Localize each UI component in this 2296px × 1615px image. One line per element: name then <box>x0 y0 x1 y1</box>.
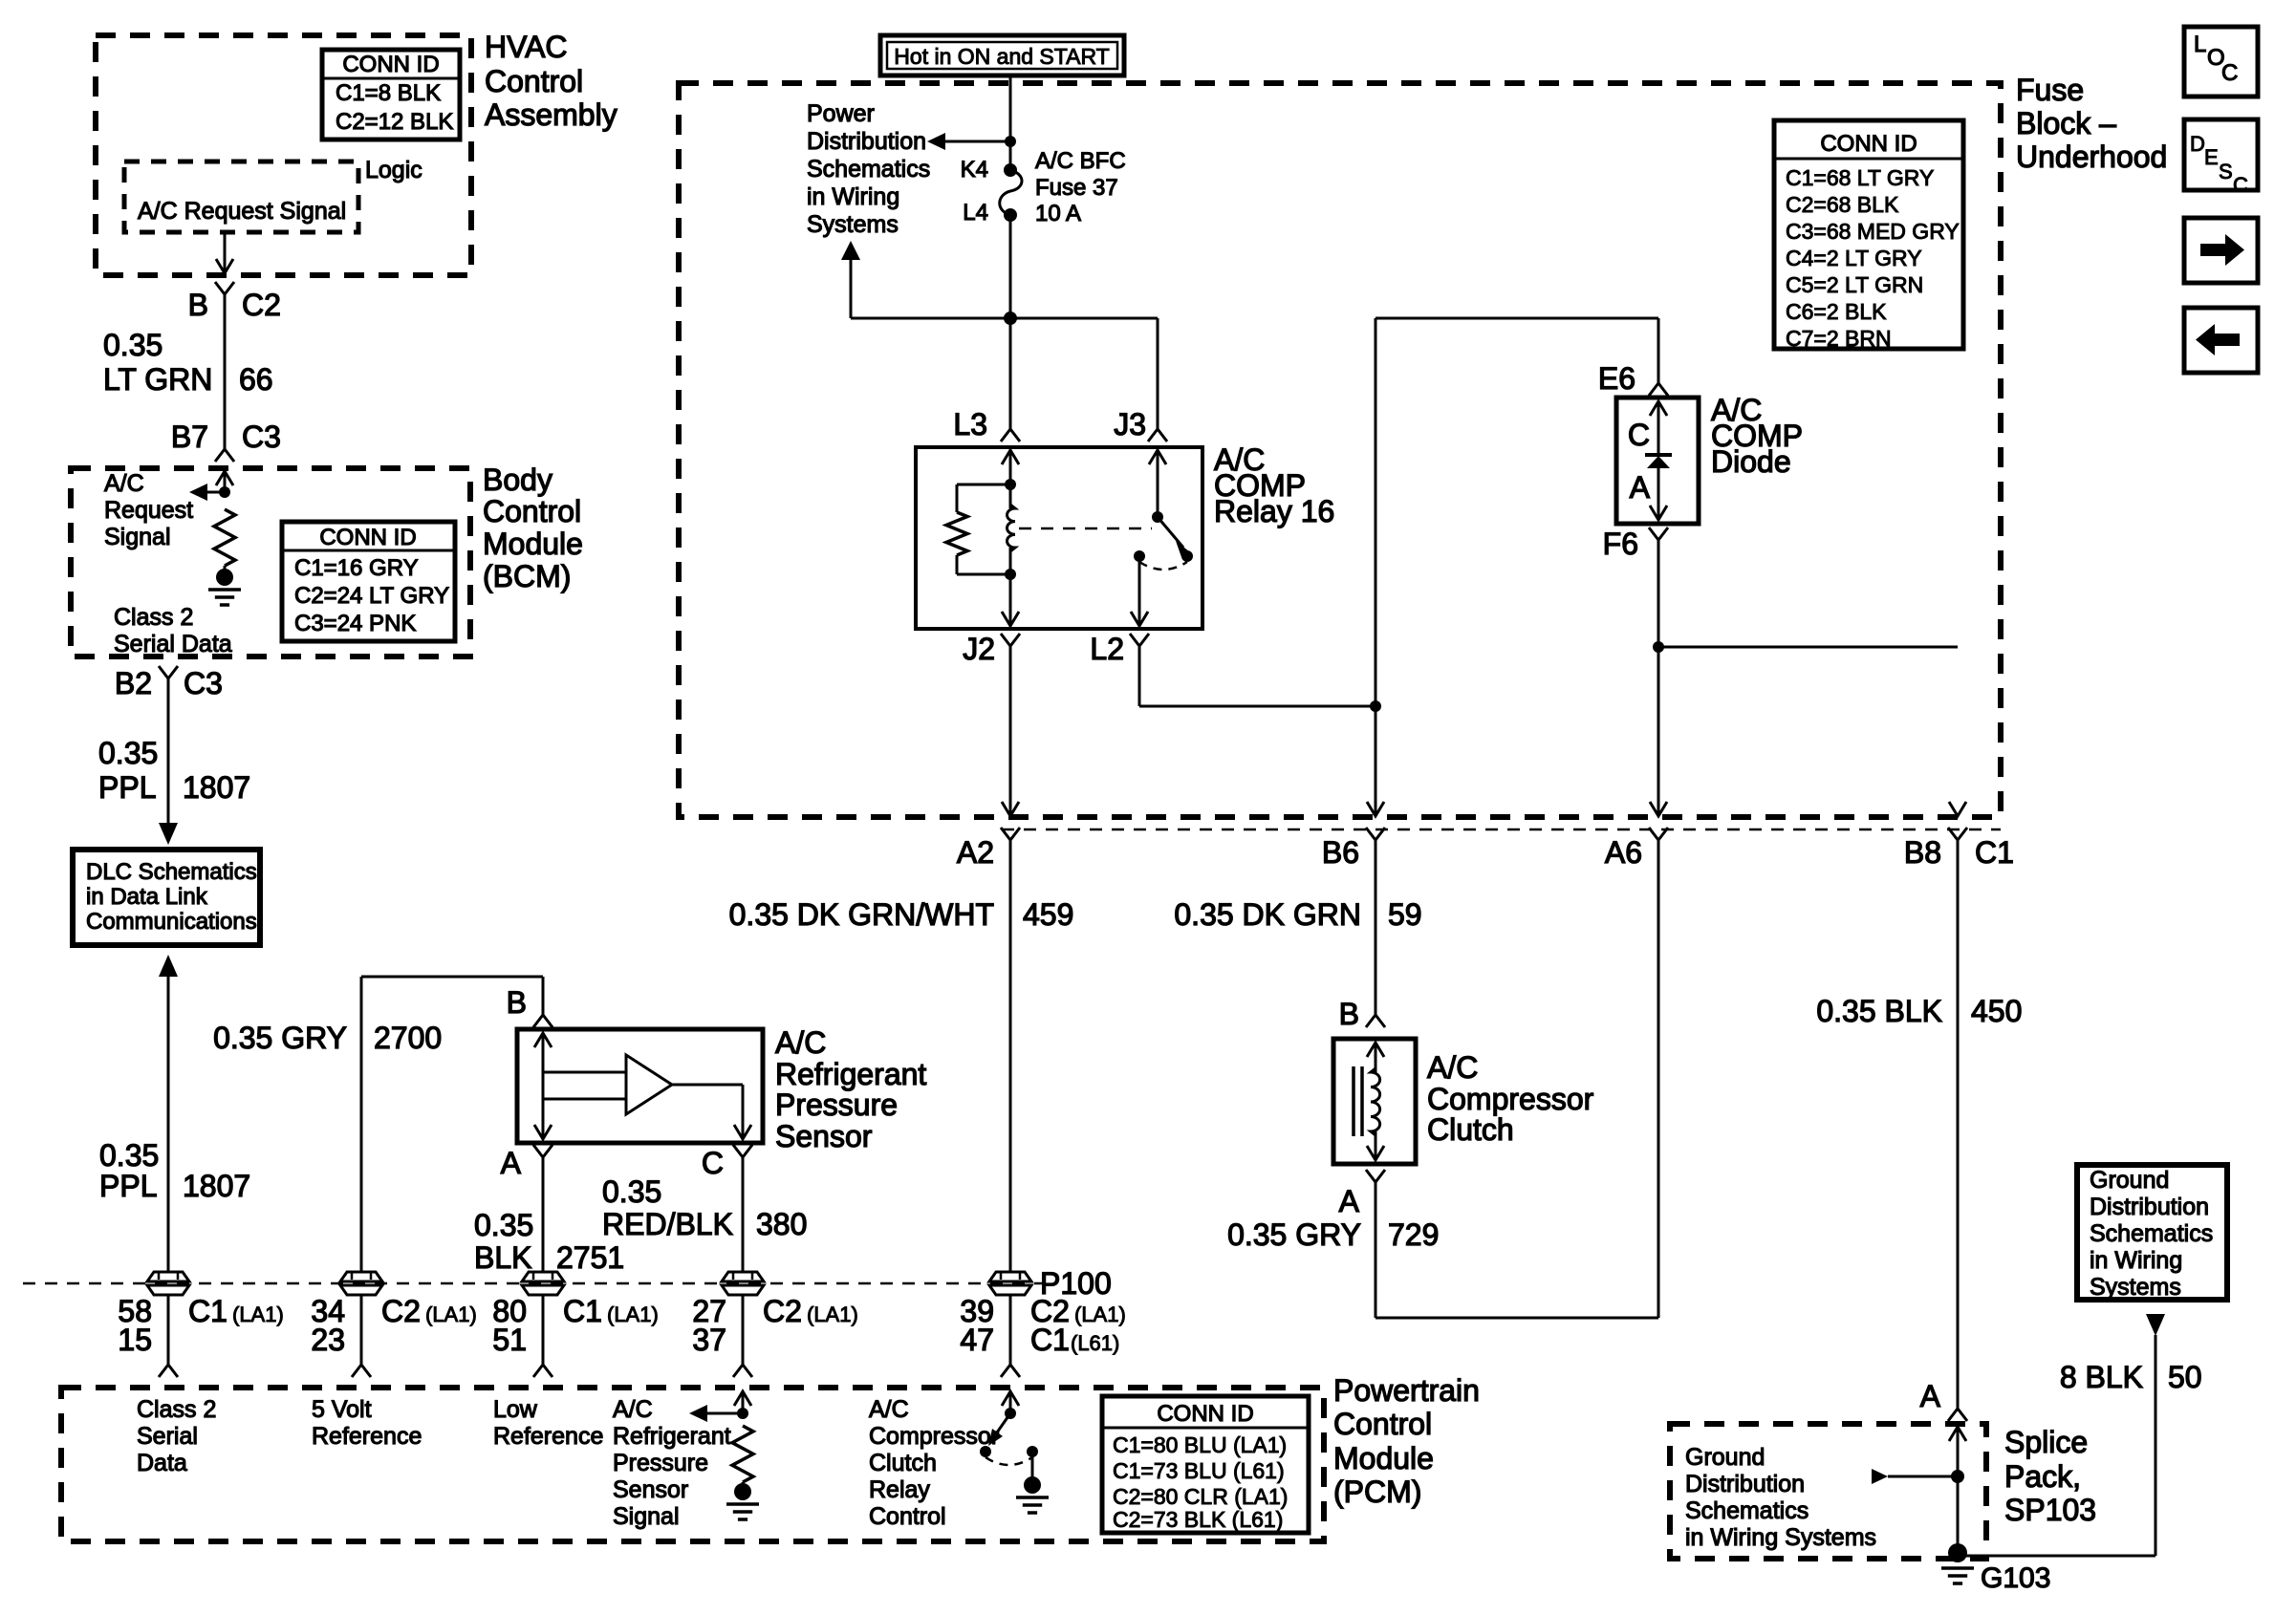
svg-text:A/C: A/C <box>1427 1050 1478 1085</box>
svg-text:Underhood: Underhood <box>2016 140 2167 174</box>
svg-text:in Wiring: in Wiring <box>2090 1247 2182 1274</box>
svg-text:BLK: BLK <box>474 1240 531 1275</box>
svg-text:Distribution: Distribution <box>1685 1471 1805 1497</box>
svg-text:A/C: A/C <box>613 1396 653 1423</box>
svg-text:C2: C2 <box>242 288 281 322</box>
svg-text:2700: 2700 <box>374 1021 442 1055</box>
svg-text:C2=68 BLK: C2=68 BLK <box>1786 192 1899 217</box>
svg-text:B: B <box>507 985 527 1020</box>
svg-text:59: 59 <box>1388 897 1422 932</box>
svg-text:C2=73 BLK (L61): C2=73 BLK (L61) <box>1113 1507 1283 1532</box>
svg-text:CONN ID: CONN ID <box>342 52 439 77</box>
svg-text:L4: L4 <box>963 200 988 226</box>
svg-text:Diode: Diode <box>1711 444 1791 479</box>
svg-text:LT GRN: LT GRN <box>103 362 212 397</box>
svg-text:A: A <box>501 1146 522 1180</box>
svg-text:A/C Request Signal: A/C Request Signal <box>138 198 346 225</box>
svg-text:L: L <box>2194 32 2206 57</box>
svg-text:Data: Data <box>137 1450 187 1476</box>
svg-text:in Wiring Systems: in Wiring Systems <box>1685 1524 1876 1551</box>
svg-text:A/C: A/C <box>869 1396 909 1423</box>
svg-text:0.35: 0.35 <box>99 1138 159 1173</box>
svg-text:0.35: 0.35 <box>103 328 162 362</box>
svg-text:CONN ID: CONN ID <box>319 525 416 550</box>
svg-text:1807: 1807 <box>183 1169 250 1203</box>
svg-text:C1: C1 <box>188 1294 227 1328</box>
svg-text:C1: C1 <box>1975 835 2014 870</box>
svg-text:L2: L2 <box>1090 632 1124 666</box>
svg-text:J3: J3 <box>1114 407 1146 441</box>
svg-text:B6: B6 <box>1322 835 1359 870</box>
svg-text:0.35 GRY: 0.35 GRY <box>213 1021 347 1055</box>
svg-text:RED/BLK: RED/BLK <box>602 1207 733 1241</box>
svg-text:Reference: Reference <box>312 1423 422 1450</box>
svg-text:Assembly: Assembly <box>485 97 617 132</box>
svg-text:0.35 DK GRN/WHT: 0.35 DK GRN/WHT <box>729 897 994 932</box>
svg-text:Fuse 37: Fuse 37 <box>1035 175 1118 201</box>
svg-text:B: B <box>1339 997 1359 1031</box>
svg-text:47: 47 <box>960 1323 994 1357</box>
svg-text:Sensor: Sensor <box>613 1476 688 1503</box>
svg-text:5 Volt: 5 Volt <box>312 1396 372 1423</box>
svg-text:Ground: Ground <box>2090 1167 2169 1194</box>
svg-text:Serial: Serial <box>137 1423 198 1450</box>
svg-text:Powertrain: Powertrain <box>1333 1373 1480 1408</box>
svg-text:37: 37 <box>692 1323 726 1357</box>
svg-text:C2: C2 <box>763 1294 802 1328</box>
svg-text:0.35 DK GRN: 0.35 DK GRN <box>1174 897 1361 932</box>
svg-text:Systems: Systems <box>807 211 899 238</box>
svg-text:E: E <box>2204 145 2219 169</box>
svg-text:50: 50 <box>2168 1360 2202 1394</box>
svg-text:450: 450 <box>1971 994 2022 1028</box>
svg-text:C3=24 PNK: C3=24 PNK <box>294 611 416 636</box>
svg-text:A: A <box>1630 470 1651 505</box>
svg-text:SP103: SP103 <box>2004 1493 2096 1527</box>
svg-text:A/C BFC: A/C BFC <box>1035 148 1126 174</box>
svg-text:23: 23 <box>311 1323 345 1357</box>
svg-text:C1: C1 <box>1030 1323 1070 1357</box>
svg-text:Low: Low <box>493 1396 538 1423</box>
svg-text:Distribution: Distribution <box>807 128 926 155</box>
svg-text:C: C <box>702 1146 724 1180</box>
svg-text:Compressor: Compressor <box>869 1423 999 1450</box>
svg-text:Fuse: Fuse <box>2016 73 2084 107</box>
svg-text:B2: B2 <box>115 666 152 700</box>
svg-text:G103: G103 <box>1981 1562 2050 1594</box>
svg-text:Refrigerant: Refrigerant <box>775 1057 926 1091</box>
svg-text:L3: L3 <box>953 407 987 441</box>
svg-text:C1=73 BLU (L61): C1=73 BLU (L61) <box>1113 1458 1285 1483</box>
svg-text:Module: Module <box>1333 1441 1434 1475</box>
svg-text:15: 15 <box>118 1323 152 1357</box>
svg-text:D: D <box>2190 132 2205 156</box>
svg-text:Power: Power <box>807 100 875 127</box>
svg-text:C1=16 GRY: C1=16 GRY <box>294 555 419 581</box>
svg-text:Control: Control <box>1333 1407 1432 1441</box>
svg-text:A6: A6 <box>1605 835 1642 870</box>
svg-text:Compressor: Compressor <box>1427 1082 1594 1116</box>
svg-text:C6=2 BLK: C6=2 BLK <box>1786 299 1887 324</box>
svg-text:380: 380 <box>756 1207 807 1241</box>
svg-text:A/C: A/C <box>775 1025 826 1060</box>
svg-text:(PCM): (PCM) <box>1333 1475 1421 1509</box>
svg-text:Refrigerant: Refrigerant <box>613 1423 731 1450</box>
svg-text:C2=12 BLK: C2=12 BLK <box>336 109 453 135</box>
svg-text:C2=80 CLR (LA1): C2=80 CLR (LA1) <box>1113 1484 1288 1509</box>
svg-text:(LA1): (LA1) <box>607 1303 659 1326</box>
svg-text:Body: Body <box>483 463 552 497</box>
svg-text:Schematics: Schematics <box>807 156 930 183</box>
svg-text:Ground: Ground <box>1685 1444 1765 1471</box>
svg-text:C2=24 LT GRY: C2=24 LT GRY <box>294 583 449 609</box>
svg-text:0.35: 0.35 <box>98 736 158 770</box>
svg-text:C: C <box>2221 60 2238 86</box>
svg-text:Pressure: Pressure <box>775 1087 898 1122</box>
svg-text:Class 2: Class 2 <box>114 604 193 631</box>
svg-text:66: 66 <box>239 362 273 397</box>
svg-text:E6: E6 <box>1598 361 1635 396</box>
svg-text:Hot in ON and START: Hot in ON and START <box>894 44 1109 69</box>
svg-text:in Data Link: in Data Link <box>86 884 208 910</box>
svg-text:C3: C3 <box>184 666 223 700</box>
svg-text:Reference: Reference <box>493 1423 603 1450</box>
svg-text:in Wiring: in Wiring <box>807 183 899 210</box>
svg-text:C1: C1 <box>563 1294 602 1328</box>
svg-text:0.35: 0.35 <box>474 1208 533 1242</box>
svg-text:J2: J2 <box>963 632 995 666</box>
svg-text:DLC Schematics: DLC Schematics <box>86 859 257 885</box>
svg-text:B: B <box>188 288 208 322</box>
svg-text:Communications: Communications <box>86 909 257 935</box>
svg-text:C1=68 LT GRY: C1=68 LT GRY <box>1786 165 1934 190</box>
svg-text:C1=80 BLU (LA1): C1=80 BLU (LA1) <box>1113 1432 1287 1457</box>
svg-text:CONN ID: CONN ID <box>1157 1401 1253 1427</box>
svg-text:C2: C2 <box>381 1294 421 1328</box>
svg-text:PPL: PPL <box>99 1169 157 1203</box>
svg-text:(L61): (L61) <box>1071 1331 1119 1355</box>
svg-text:(LA1): (LA1) <box>232 1303 284 1326</box>
svg-text:C7=2 BRN: C7=2 BRN <box>1786 326 1892 351</box>
svg-text:10 A: 10 A <box>1035 201 1081 226</box>
svg-text:C4=2 LT GRY: C4=2 LT GRY <box>1786 246 1922 270</box>
svg-text:Systems: Systems <box>2090 1274 2181 1301</box>
svg-text:729: 729 <box>1388 1217 1439 1252</box>
svg-text:Block –: Block – <box>2016 106 2116 140</box>
svg-text:(LA1): (LA1) <box>807 1303 858 1326</box>
svg-text:C: C <box>1628 418 1650 452</box>
svg-text:C5=2 LT GRN: C5=2 LT GRN <box>1786 272 1923 297</box>
svg-text:K4: K4 <box>961 157 988 183</box>
svg-text:Schematics: Schematics <box>1685 1497 1809 1524</box>
svg-text:A: A <box>1339 1184 1360 1218</box>
svg-text:Serial Data: Serial Data <box>114 631 232 657</box>
svg-text:A/C: A/C <box>104 470 144 497</box>
svg-text:Signal: Signal <box>104 524 171 550</box>
svg-text:8 BLK: 8 BLK <box>2060 1360 2143 1394</box>
svg-text:(LA1): (LA1) <box>425 1303 477 1326</box>
svg-text:PPL: PPL <box>98 770 156 805</box>
svg-text:Clutch: Clutch <box>869 1450 937 1476</box>
svg-text:Sensor: Sensor <box>775 1119 873 1153</box>
svg-text:51: 51 <box>492 1323 527 1357</box>
svg-text:(LA1): (LA1) <box>1074 1303 1126 1326</box>
svg-text:S: S <box>2219 160 2233 183</box>
svg-text:HVAC: HVAC <box>485 30 568 64</box>
svg-text:Pressure: Pressure <box>613 1450 708 1476</box>
svg-text:Schematics: Schematics <box>2090 1220 2213 1247</box>
svg-text:1807: 1807 <box>183 770 250 805</box>
svg-text:2751: 2751 <box>556 1240 624 1275</box>
svg-text:Control: Control <box>869 1503 946 1530</box>
svg-text:A: A <box>1920 1379 1941 1413</box>
svg-text:C3: C3 <box>242 420 281 454</box>
svg-text:F6: F6 <box>1603 527 1638 561</box>
svg-text:(BCM): (BCM) <box>483 559 571 593</box>
svg-text:Logic: Logic <box>365 157 422 183</box>
svg-text:0.35 GRY: 0.35 GRY <box>1227 1217 1361 1252</box>
svg-text:C: C <box>2233 173 2248 197</box>
svg-text:Module: Module <box>483 527 583 561</box>
svg-text:A2: A2 <box>957 835 994 870</box>
svg-text:C3=68 MED GRY: C3=68 MED GRY <box>1786 219 1960 244</box>
svg-text:0.35 BLK: 0.35 BLK <box>1816 994 1942 1028</box>
svg-text:Control: Control <box>485 64 583 98</box>
svg-text:0.35: 0.35 <box>602 1174 661 1209</box>
svg-text:Request: Request <box>104 497 193 524</box>
svg-text:C1=8 BLK: C1=8 BLK <box>336 80 441 106</box>
svg-text:B7: B7 <box>171 420 208 454</box>
svg-text:Control: Control <box>483 494 581 528</box>
svg-text:CONN ID: CONN ID <box>1820 131 1917 157</box>
svg-text:Clutch: Clutch <box>1427 1112 1514 1147</box>
svg-text:Class 2: Class 2 <box>137 1396 216 1423</box>
svg-text:Relay 16: Relay 16 <box>1214 494 1334 528</box>
svg-text:Distribution: Distribution <box>2090 1194 2209 1220</box>
svg-text:Signal: Signal <box>613 1503 680 1530</box>
svg-text:Splice: Splice <box>2004 1425 2088 1459</box>
svg-text:B8: B8 <box>1904 835 1941 870</box>
svg-text:Relay: Relay <box>869 1476 930 1503</box>
svg-text:459: 459 <box>1023 897 1073 932</box>
svg-text:Pack,: Pack, <box>2004 1459 2081 1494</box>
